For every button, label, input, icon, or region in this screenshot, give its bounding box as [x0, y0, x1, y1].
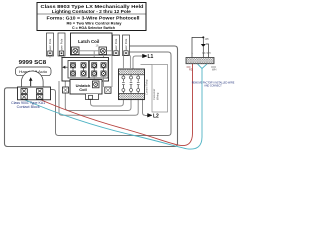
photocell terminal strip	[186, 58, 214, 64]
power pole box 3	[113, 35, 120, 56]
selector switch knob	[22, 71, 44, 87]
svg-text:Customer: Customer	[152, 89, 156, 100]
contactor pole 3	[92, 63, 97, 76]
wire power pole to relay top b	[129, 56, 131, 70]
unlatch coil terminal right	[105, 87, 111, 93]
wire pole3 to unlatch terminal	[93, 76, 95, 81]
contact block terminal 3	[21, 94, 27, 99]
cyan wire Y split at strip	[198, 64, 208, 69]
relay terminal strip bottom	[119, 93, 145, 99]
svg-text:AND CONNECT: AND CONNECT	[204, 85, 222, 88]
svg-text:RD: RD	[189, 68, 193, 72]
contact block terminal 2	[37, 89, 43, 94]
contactor pole 4	[101, 63, 106, 76]
contactor block outer	[62, 58, 109, 82]
node L1 arrow label	[140, 54, 147, 58]
svg-text:WH: WH	[212, 68, 216, 72]
relay terminal strip top	[119, 69, 145, 75]
contactor right sub-box	[89, 61, 108, 79]
wire nested U contactor to relay outer	[59, 81, 138, 115]
unlatch coil box	[70, 80, 102, 95]
wire L2 from relay strip	[143, 99, 146, 115]
wire nested U unlatch to relay inner	[91, 99, 124, 106]
svg-text:WH: WH	[207, 52, 211, 55]
photocell wire labels	[187, 67, 217, 72]
customer wiring box	[141, 65, 168, 113]
wire power pole to relay top a	[122, 56, 124, 70]
wire big grey loop from contact block around bottom to power pole feed	[51, 52, 172, 136]
relay contact 3	[137, 75, 140, 94]
wire stubs power poles to contactor	[50, 56, 62, 58]
power pole box 2	[58, 33, 65, 56]
selector switch HOA plate	[16, 67, 52, 76]
contact block box	[18, 87, 51, 100]
svg-text:L2: L2	[153, 114, 159, 120]
red wire from contact block to photocell	[27, 64, 193, 146]
contactor pole 1	[70, 63, 75, 76]
contactor left sub-box	[68, 61, 89, 79]
cyan wire from contact block to photocell	[24, 69, 202, 150]
svg-text:Wiring: Wiring	[156, 92, 160, 100]
wire nested U contactor to relay middle	[65, 81, 131, 111]
svg-text:Latch Coil: Latch Coil	[78, 39, 99, 44]
svg-text:Coil: Coil	[79, 87, 87, 92]
unlatch coil terminal top right	[93, 81, 100, 88]
svg-text:C = HOA Selector Switch: C = HOA Selector Switch	[72, 25, 116, 30]
contactor feed tick	[63, 66, 68, 68]
svg-text:Contact Block: Contact Block	[17, 105, 40, 109]
power pole bottom terminals	[48, 51, 128, 56]
wire pole4 to right terminal	[103, 76, 105, 87]
svg-text:BK: BK	[202, 52, 206, 55]
relay block R6	[119, 69, 145, 100]
relay contact 2	[130, 75, 133, 94]
unlatch coil bottom terminal	[86, 94, 99, 100]
title box	[37, 3, 146, 31]
node L2 arrow label	[145, 114, 152, 118]
svg-text:1Ph: 1Ph	[205, 38, 210, 41]
wire stub unlatch top terminal	[95, 88, 97, 94]
photocell schematic	[192, 36, 211, 57]
contact block terminal 1	[21, 89, 27, 94]
wire outer loop power feed around bottom to contact block	[5, 46, 178, 147]
svg-text:L1: L1	[148, 54, 154, 60]
contact block terminal 4	[37, 94, 43, 99]
svg-text:Control Relay: Control Relay	[145, 79, 149, 95]
unlatch coil terminal left	[63, 87, 69, 93]
wire L1 from relay feed	[133, 56, 140, 69]
latch coil box	[71, 33, 113, 55]
latch coil terminal right	[96, 44, 107, 55]
power pole box 4	[123, 35, 130, 56]
power pole box 1	[47, 33, 54, 56]
wire between latch terminals	[79, 51, 112, 87]
svg-text:9999 SC8: 9999 SC8	[19, 60, 47, 66]
svg-text:Lighting Contactor - 2 thru 12: Lighting Contactor - 2 thru 12 Pole	[52, 9, 131, 14]
latch coil terminal left	[72, 47, 80, 55]
contactor pole 2	[81, 63, 86, 76]
relay contact 1	[122, 75, 125, 94]
